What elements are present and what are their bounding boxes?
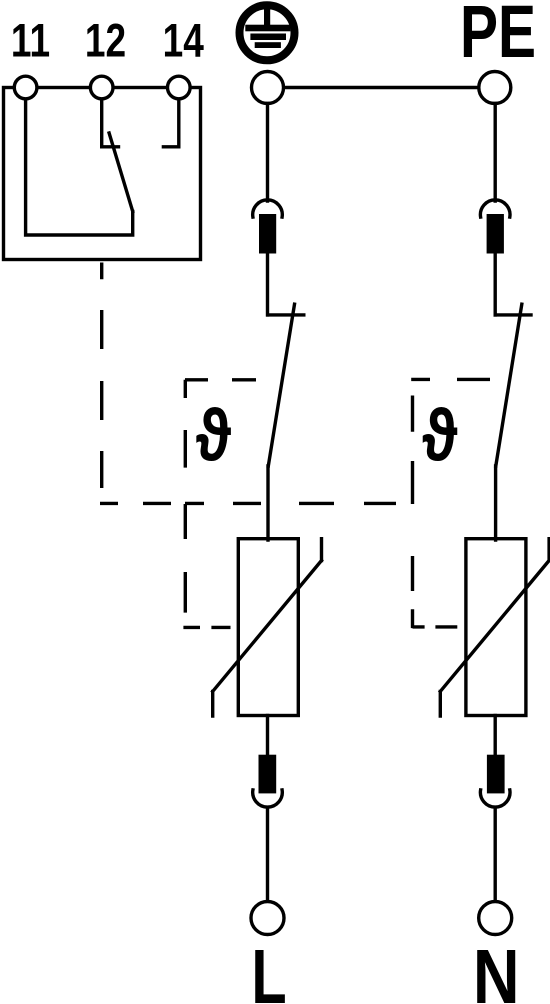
thermal disconnect element right top (487, 214, 504, 254)
wire terminal 14 fixed contact (163, 99, 178, 147)
varistor diagonal left (213, 539, 322, 716)
dashed mechanical link from signalling contact (100, 263, 103, 489)
switch contact tick right (495, 313, 531, 316)
terminal earth (252, 72, 284, 104)
thermal disconnect arc right top (480, 200, 510, 217)
wire (494, 808, 497, 902)
terminal 14 (168, 76, 191, 99)
theta box right dashes (411, 379, 490, 628)
wire (266, 808, 269, 902)
thermal disconnect element left bottom (259, 755, 277, 794)
wire (266, 716, 269, 755)
varistor diagonal right (440, 539, 549, 716)
svg-text:N: N (473, 935, 520, 1004)
svg-text:ϑ: ϑ (196, 395, 232, 477)
svg-text:11: 11 (11, 14, 50, 68)
varistor right (466, 539, 526, 716)
svg-text:ϑ: ϑ (422, 395, 458, 477)
wire right branch top (494, 104, 497, 202)
svg-text:14: 14 (163, 14, 204, 68)
wire terminal 12 fixed contact (102, 99, 119, 147)
switch blade right (496, 304, 522, 466)
protective earth symbol (240, 5, 295, 60)
switch blade left (268, 304, 294, 466)
terminal L (251, 902, 284, 935)
terminal N (479, 902, 512, 935)
dashed mechanical linkage horizontal (100, 502, 396, 505)
svg-text:L: L (251, 934, 286, 1004)
svg-text:12: 12 (85, 14, 126, 68)
wire (494, 716, 497, 755)
wire left branch top (266, 104, 269, 202)
wire (266, 254, 269, 315)
thermal disconnect element left top (259, 214, 276, 254)
thermal disconnect arc left bottom (253, 790, 283, 807)
terminal PE (479, 72, 511, 104)
wire PE bus (268, 86, 495, 89)
remote signalling contact box (4, 88, 201, 260)
thermal disconnect arc left top (253, 200, 283, 217)
terminal 11 (14, 76, 37, 99)
theta box left dashes (183, 380, 256, 628)
svg-text:PE: PE (460, 0, 536, 73)
switch blade changeover contact (109, 133, 133, 211)
varistor left (238, 539, 298, 716)
wire terminal 11 common (26, 99, 133, 236)
switch contact tick left (268, 313, 304, 316)
wire (494, 466, 497, 540)
wire (266, 466, 269, 540)
thermal disconnect arc right bottom (480, 790, 510, 807)
wire (494, 254, 497, 315)
thermal disconnect element right bottom (487, 755, 505, 794)
terminal 12 (90, 76, 113, 99)
